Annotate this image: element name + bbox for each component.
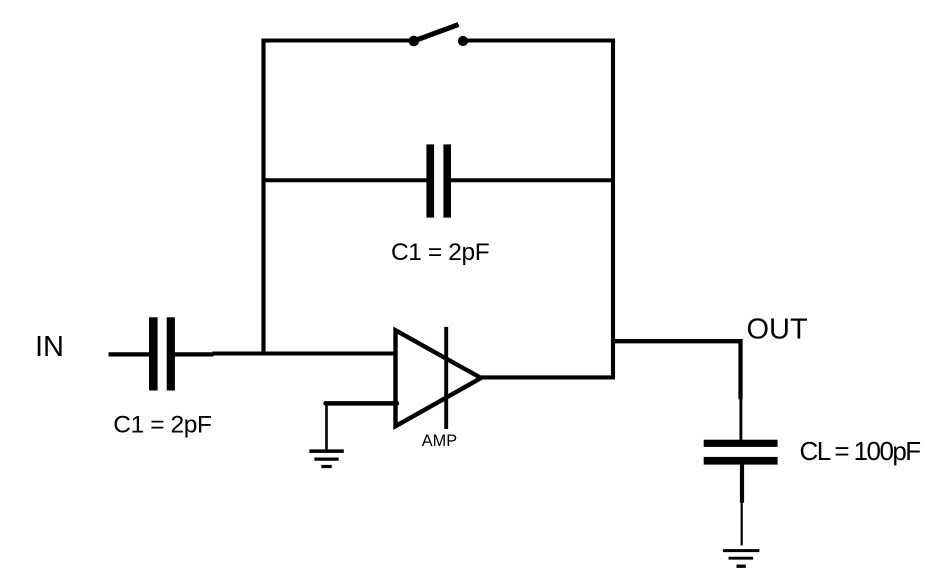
wire input lead from IN xyxy=(109,352,152,356)
amp bias line (vertical pin line through triangle) xyxy=(444,327,448,429)
svg-text:CL = 100pF: CL = 100pF xyxy=(800,436,921,466)
wire from junction to amp + input (node A) xyxy=(213,352,398,356)
value label CL = 100pF xyxy=(800,436,921,466)
wire amp - input to ground branch xyxy=(326,401,398,406)
svg-text:C1 = 2pF: C1 = 2pF xyxy=(113,411,211,438)
node OUT label xyxy=(747,314,809,346)
wire ground lead (left) xyxy=(325,402,328,450)
svg-text:IN: IN xyxy=(35,331,64,363)
wire amp output to right vertical (node OUT junction) xyxy=(481,375,615,379)
wire mid-right: feedback capacitor branch, right segment xyxy=(451,178,614,182)
node IN label xyxy=(35,331,64,363)
svg-text:C1 = 2pF: C1 = 2pF xyxy=(391,239,489,266)
value label C1 = 2pF (input capacitor) xyxy=(113,411,211,438)
svg-text:AMP: AMP xyxy=(422,432,457,450)
wire load capacitor bottom lead (thin) xyxy=(741,502,743,545)
ground (bottom, under load capacitor) xyxy=(723,551,760,567)
op-amp U1 (AMP triangle) xyxy=(396,330,482,426)
wire mid-left: feedback capacitor branch, left segment xyxy=(264,178,428,182)
switch S1 (open, in top feedback wire) xyxy=(409,25,469,47)
value label C1 = 2pF (feedback capacitor) xyxy=(391,239,489,266)
label AMP xyxy=(422,432,457,450)
wire OUT branch: horizontal tap and drop to load capacitor xyxy=(611,341,741,399)
capacitor C1 (feedback, top branch) xyxy=(426,144,451,217)
wire thin continuation down to load capacitor xyxy=(739,399,742,441)
svg-text:OUT: OUT xyxy=(747,314,809,346)
capacitor CL (load) xyxy=(704,440,778,465)
wire top-right: top wire from switch and right vertical wire down to amp output xyxy=(466,41,613,378)
wire top-left: left vertical feedback wire and top wire up to switch xyxy=(264,41,411,355)
ground (left, amp - input) xyxy=(309,451,343,466)
capacitor C1 (input, series) xyxy=(149,317,175,390)
wire load capacitor bottom lead (thick) xyxy=(740,464,744,503)
wire from input capacitor to junction xyxy=(173,352,214,356)
